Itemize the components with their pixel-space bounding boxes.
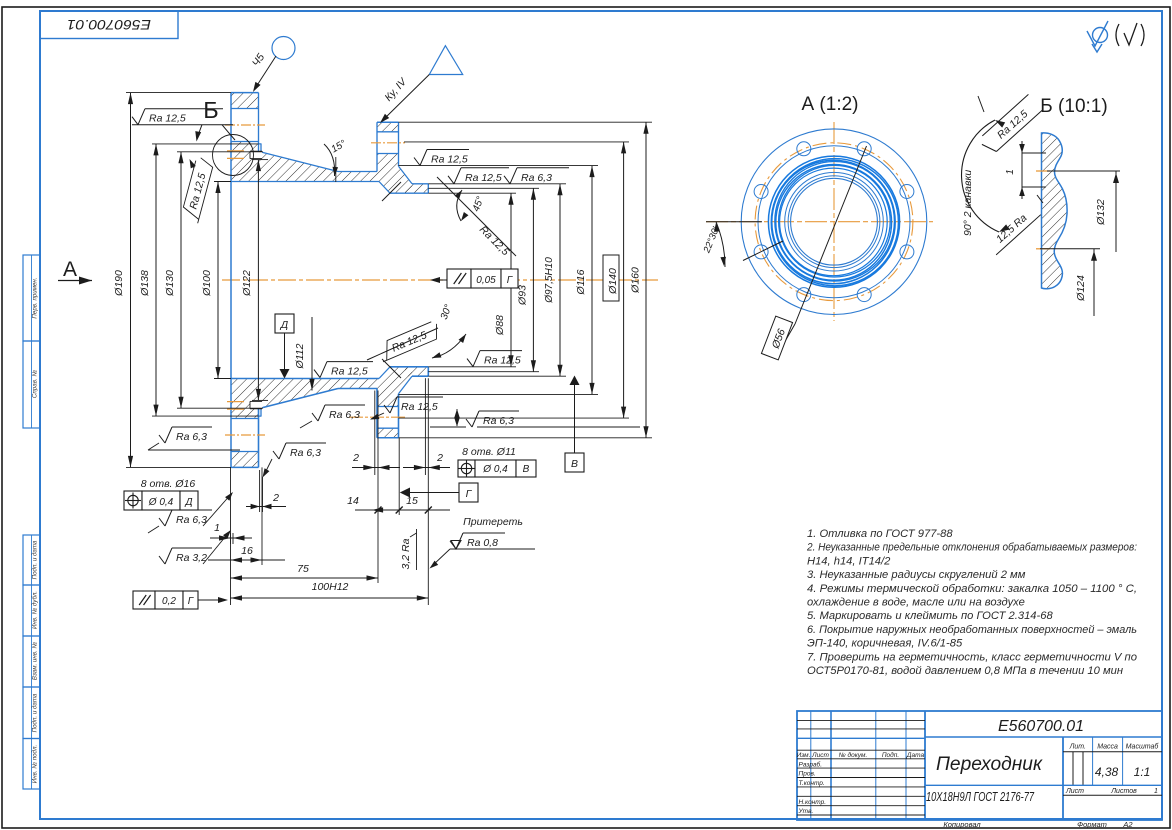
dimension phi140 xyxy=(623,142,625,418)
svg-text:Ø132: Ø132 xyxy=(1095,199,1107,226)
margin box Podp i data 1 xyxy=(23,535,40,585)
svg-text:6. Покрытие наружных необработ: 6. Покрытие наружных необработанных пове… xyxy=(807,624,1137,636)
dimension phi88 xyxy=(510,193,512,367)
view B roughness 12,5 Ra slanted xyxy=(986,204,1041,255)
svg-text:Ra 6,3: Ra 6,3 xyxy=(290,447,321,459)
view A phi56 dimension line xyxy=(795,146,867,324)
dimension 45deg arc xyxy=(457,190,462,221)
hatching left flange bottom upper xyxy=(231,452,259,468)
detail B circle xyxy=(213,135,254,176)
datum V box xyxy=(565,453,584,472)
view A centerline horizontal xyxy=(706,221,933,223)
extension line 425.4 xyxy=(424,378,426,475)
svg-text:Д: Д xyxy=(280,319,289,331)
bolt hole centerline left flange top xyxy=(225,124,265,126)
svg-text:А (1:2): А (1:2) xyxy=(801,94,858,115)
svg-text:10Х18Н9Л ГОСТ 2176-77: 10Х18Н9Л ГОСТ 2176-77 xyxy=(926,790,1035,804)
title block verticals xyxy=(810,711,812,820)
svg-text:Ra 6,3: Ra 6,3 xyxy=(483,415,514,427)
margin box Vzam inv No xyxy=(23,636,40,687)
roughness Ra 6,3 mid left xyxy=(273,451,279,459)
svg-text:№ докум.: № докум. xyxy=(839,751,868,759)
hatching spigot wall top xyxy=(405,184,428,193)
svg-text:ОСТ5Р0170-81, водой давлением: ОСТ5Р0170-81, водой давлением 0,8 МПа в … xyxy=(807,665,1123,677)
datum G box xyxy=(459,483,478,502)
margin box Perv primen xyxy=(23,255,40,341)
view A 22deg30 angular dimension xyxy=(706,221,762,223)
general roughness symbol xyxy=(1087,21,1108,52)
svg-text:Масса: Масса xyxy=(1097,744,1118,751)
svg-text:Б (10:1): Б (10:1) xyxy=(1040,96,1107,117)
dimension 100H12 xyxy=(231,597,429,599)
dimension phi160 xyxy=(645,122,647,438)
margin box Podp i data 2 xyxy=(23,687,40,739)
svg-text:Лист: Лист xyxy=(811,752,829,759)
roughness Ra 12,5 top left xyxy=(132,117,138,125)
roughness Ra 12,5 lower mid xyxy=(384,405,390,413)
extension line right face bottom xyxy=(427,378,429,605)
roughness Ra 6,3 left flange bottom xyxy=(159,435,165,443)
svg-text:2: 2 xyxy=(272,492,279,504)
svg-text:3,2 Ra: 3,2 Ra xyxy=(400,538,412,569)
svg-text:4. Режимы термической обработк: 4. Режимы термической обработки: закалка… xyxy=(807,583,1137,595)
svg-text:100Н12: 100Н12 xyxy=(312,581,349,593)
svg-text:2: 2 xyxy=(352,452,359,464)
dimension 75 xyxy=(231,577,379,579)
svg-text:75: 75 xyxy=(297,563,309,575)
svg-text:Ø112: Ø112 xyxy=(294,343,306,369)
svg-text:Ø160: Ø160 xyxy=(630,267,642,294)
hatching left flange bottom lower xyxy=(231,379,259,419)
bolt hole centerline left flange bottom xyxy=(225,434,265,436)
svg-text:2: 2 xyxy=(436,452,443,464)
groove centerline ticks near detail B bottom xyxy=(227,401,244,403)
svg-text:4,38: 4,38 xyxy=(1095,765,1119,779)
svg-text:Ra 12,5: Ra 12,5 xyxy=(331,366,368,378)
chamfer 45 leader xyxy=(437,177,516,256)
view A inner circles xyxy=(785,172,884,271)
dimension 2 right groove xyxy=(403,467,450,469)
dimension phi190 xyxy=(130,93,132,468)
margin box Inv No dubl xyxy=(23,585,40,636)
top-left stamp E560700.01 xyxy=(40,11,178,39)
svg-text:Подп.: Подп. xyxy=(882,751,899,759)
hatching cone wall bottom xyxy=(259,379,378,409)
svg-text:Е560700.01: Е560700.01 xyxy=(998,718,1084,735)
hatching spigot wall bottom xyxy=(405,367,428,376)
groove notch at flange root top xyxy=(250,151,262,158)
svg-text:Ø122: Ø122 xyxy=(241,270,253,297)
extension line groove 374.8 xyxy=(374,391,376,476)
view A centerline vertical xyxy=(833,122,835,321)
svg-text:Копировал: Копировал xyxy=(943,820,981,829)
roughness Ra 12,5 on phi116 line xyxy=(414,158,420,166)
svg-text:Ø 0,4: Ø 0,4 xyxy=(482,464,508,475)
bolt hole centerline right flange bottom xyxy=(349,416,405,418)
hatching right flange top upper xyxy=(377,122,399,132)
svg-text:Ø 0,4: Ø 0,4 xyxy=(148,497,174,508)
svg-text:Переходник: Переходник xyxy=(936,754,1043,775)
dimension phi122 xyxy=(257,160,259,401)
svg-text:Утв.: Утв. xyxy=(798,808,814,815)
svg-text:В: В xyxy=(523,464,530,475)
svg-text:Формат: Формат xyxy=(1077,820,1107,829)
svg-text:Ra 12,5: Ra 12,5 xyxy=(484,355,521,367)
svg-text:Ø100: Ø100 xyxy=(201,270,213,297)
dimension 16 xyxy=(208,559,285,561)
svg-text:Ra 12,5: Ra 12,5 xyxy=(465,172,502,184)
roughness Ra 12,5 on phi97.5 line xyxy=(448,176,454,184)
datum D box xyxy=(275,314,294,333)
svg-text:Ø140: Ø140 xyxy=(607,268,619,295)
svg-text:5. Маркировать и клеймить по Г: 5. Маркировать и клеймить по ГОСТ 2.314-… xyxy=(807,610,1053,622)
svg-text:Инв. № дубл.: Инв. № дубл. xyxy=(32,591,39,629)
svg-text:Н.контр.: Н.контр. xyxy=(799,799,827,806)
view B dimension phi124 xyxy=(1093,249,1095,316)
svg-text:0,2: 0,2 xyxy=(162,596,176,607)
bolt hole centerline right flange top xyxy=(371,142,405,144)
inner cone edge 45 top xyxy=(382,182,401,201)
dimension 2 left groove xyxy=(352,467,400,469)
svg-text:1. Отливка по ГОСТ 977-88: 1. Отливка по ГОСТ 977-88 xyxy=(807,528,953,540)
svg-text:Лит.: Лит. xyxy=(1069,744,1086,751)
svg-text:Дата: Дата xyxy=(906,752,925,759)
svg-text:1: 1 xyxy=(214,522,220,534)
dimension phi97,5Н10 xyxy=(559,184,561,376)
roughness Ra 12,5 rotated left xyxy=(180,157,214,223)
view B extension line phi124 xyxy=(1040,248,1100,250)
svg-text:8 отв. Ø16: 8 отв. Ø16 xyxy=(141,478,196,490)
hatching right flange bottom upper xyxy=(377,428,399,438)
hatching right flange top lower xyxy=(377,154,412,194)
title block lit cells xyxy=(1072,752,1074,786)
svg-text:Ø97,5Н10: Ø97,5Н10 xyxy=(544,257,555,304)
groove centerline ticks near detail B top xyxy=(227,150,244,152)
svg-text:Д: Д xyxy=(184,497,192,508)
extension line flange2 right face xyxy=(398,438,400,515)
svg-text:14: 14 xyxy=(347,495,359,507)
svg-text:Подп. и дата: Подп. и дата xyxy=(32,693,39,732)
svg-text:Ø116: Ø116 xyxy=(575,269,587,295)
dimension phi93 xyxy=(532,188,534,371)
margin box Sprav No xyxy=(23,341,40,428)
svg-text:Ra 6,3: Ra 6,3 xyxy=(176,431,207,443)
svg-text:Пров.: Пров. xyxy=(799,771,816,778)
svg-text:Перв. примен.: Перв. примен. xyxy=(32,277,39,318)
view B dimension phi132 xyxy=(1115,171,1117,252)
dimension phi112 xyxy=(311,317,313,391)
svg-text:Б: Б xyxy=(203,97,218,123)
svg-text:2. Неуказанные предельные откл: 2. Неуказанные предельные отклонения обр… xyxy=(806,542,1137,554)
svg-text:Т.контр.: Т.контр. xyxy=(799,780,825,787)
dimension 15deg arc xyxy=(335,157,337,182)
svg-text:охлаждение в воде, масле или н: охлаждение в воде, масле или на воздухе xyxy=(807,597,1025,609)
svg-text:Изм.: Изм. xyxy=(797,752,811,759)
hatching left flange lower xyxy=(231,142,259,182)
roughness Ra 6,3 bottom left 2 xyxy=(159,518,165,526)
title block horizontals xyxy=(797,719,925,721)
view A bolt circle centerline xyxy=(755,143,913,301)
parallelism frame 0,2 xyxy=(133,591,155,609)
roughness Ra 12,5 on bore line bottom xyxy=(314,370,320,378)
svg-text:Масштаб: Масштаб xyxy=(1126,743,1160,751)
hatching cone wall top xyxy=(259,152,378,182)
svg-text:Н14, h14, IT14/2: Н14, h14, IT14/2 xyxy=(807,555,891,567)
view A outer circle phi190 xyxy=(741,129,927,315)
view A bolt holes 8x phi16 xyxy=(900,185,914,199)
dimension phi100 xyxy=(217,182,219,379)
extension line left face bottom xyxy=(230,467,232,605)
svg-text:8 отв. Ø11: 8 отв. Ø11 xyxy=(462,446,516,458)
svg-text:Подп. и дата: Подп. и дата xyxy=(32,540,39,579)
roughness Ra 12,5 on phi88 bottom line xyxy=(467,359,473,367)
svg-text:0,05: 0,05 xyxy=(476,275,496,286)
double arrow between extension lines xyxy=(456,409,458,426)
svg-text:Ø88: Ø88 xyxy=(494,315,506,336)
svg-text:1: 1 xyxy=(1154,788,1158,795)
groove notch at flange root bottom xyxy=(250,401,262,408)
roughness Ra 6,3 lower mid xyxy=(312,413,318,421)
svg-text:В: В xyxy=(571,458,578,470)
roughness Ra 3,2 bottom left xyxy=(159,556,165,564)
svg-text:Справ. №: Справ. № xyxy=(32,370,39,398)
view B groove centerline ticks xyxy=(1036,170,1050,172)
svg-text:Листов: Листов xyxy=(1110,788,1137,795)
svg-text:Ra 6,3: Ra 6,3 xyxy=(176,514,207,526)
main axis centerline xyxy=(222,279,658,281)
margin box Inv No podl xyxy=(23,739,40,790)
title block frame xyxy=(797,711,1162,820)
svg-text:Разраб.: Разраб. xyxy=(799,760,823,768)
casting gate triangle xyxy=(429,46,462,75)
roughness Ra 6,3 upper right xyxy=(504,176,510,184)
casting mark circle xyxy=(272,37,295,60)
view B 90deg arc dimension xyxy=(962,120,999,232)
dimension phi130 xyxy=(180,152,182,408)
view direction arrow A xyxy=(58,280,92,282)
svg-text:А: А xyxy=(63,258,77,281)
svg-text:Притереть: Притереть xyxy=(463,516,523,528)
view B roughness Ra 12,5 slanted xyxy=(978,94,1043,155)
svg-text:16: 16 xyxy=(241,545,253,557)
svg-text:ЭП-140, коричневая, IV.6/1-85: ЭП-140, коричневая, IV.6/1-85 xyxy=(807,638,963,650)
hatching right flange bottom lower xyxy=(377,367,412,407)
svg-text:Ra 6,3: Ra 6,3 xyxy=(521,172,552,184)
svg-text:Ø138: Ø138 xyxy=(139,270,151,297)
svg-text:90° 2 канавки: 90° 2 канавки xyxy=(962,170,974,236)
dimension 14 and 15 xyxy=(355,509,450,511)
svg-text:Ra 3,2: Ra 3,2 xyxy=(176,552,207,564)
svg-text:Ø124: Ø124 xyxy=(1075,275,1087,302)
svg-text:1:1: 1:1 xyxy=(1134,765,1151,779)
inner cone edge 45 bottom xyxy=(382,359,401,378)
svg-text:Ra 12,5: Ra 12,5 xyxy=(401,401,438,413)
view A groove circles cluster xyxy=(768,156,899,287)
svg-text:3. Неуказанные радиусы скругле: 3. Неуказанные радиусы скруглений 2 мм xyxy=(807,569,1026,581)
dimension phi116 xyxy=(591,166,593,395)
dimension phi138 xyxy=(155,144,157,416)
svg-text:7. Проверить на герметичность,: 7. Проверить на герметичность, класс гер… xyxy=(807,651,1137,663)
roughness in parentheses xyxy=(1116,23,1144,46)
svg-text:Ra 6,3: Ra 6,3 xyxy=(329,409,360,421)
chamfer 30 leader xyxy=(367,328,438,360)
svg-text:1: 1 xyxy=(1005,169,1016,175)
svg-text:15: 15 xyxy=(406,495,418,507)
svg-text:Е560700.01: Е560700.01 xyxy=(67,17,151,32)
parallelism frame 0,05 xyxy=(447,269,471,288)
extension line x262 xyxy=(261,467,263,565)
svg-text:Взам. инв. №: Взам. инв. № xyxy=(32,642,39,681)
svg-text:А2: А2 xyxy=(1122,820,1133,829)
svg-text:Ø190: Ø190 xyxy=(113,270,125,297)
svg-text:Ra 12,5: Ra 12,5 xyxy=(149,113,186,125)
view B extension line phi132 xyxy=(1047,170,1120,172)
hatching left flange upper xyxy=(231,93,259,109)
roughness Ra 6,3 right of part xyxy=(466,419,472,427)
svg-text:Лист: Лист xyxy=(1065,788,1084,795)
dimension 2 flange root groove xyxy=(259,470,261,512)
view B section blob xyxy=(1042,133,1068,289)
svg-text:Ra 12,5: Ra 12,5 xyxy=(431,154,468,166)
dimension 1 xyxy=(210,537,252,539)
svg-text:Инв. № подл.: Инв. № подл. xyxy=(32,745,39,783)
extension line flange2 left xyxy=(377,391,379,584)
svg-text:Ra 0,8: Ra 0,8 xyxy=(467,537,498,549)
svg-text:Ø130: Ø130 xyxy=(164,270,176,297)
view B dimension 1 xyxy=(1022,152,1046,154)
part outline blue xyxy=(231,93,428,468)
view A flange circle phi155 xyxy=(758,146,910,298)
